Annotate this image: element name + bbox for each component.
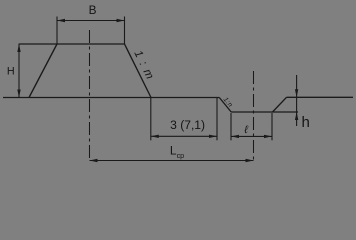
arrowhead H bottom — [17, 90, 20, 98]
ground line left (natural ground surface) — [3, 97, 219, 99]
arrowhead h down (onto upper ground level) — [295, 89, 298, 97]
svg-text:3 (7,1): 3 (7,1) — [170, 118, 205, 132]
arrowhead 3(7,1) right — [209, 135, 217, 138]
extension line l left (ditch bottom left) — [230, 113, 232, 140]
arrowhead Lcp right — [246, 159, 254, 162]
dimension line B — [57, 20, 125, 22]
dimension line l (ditch bottom width) — [231, 135, 272, 137]
extension line for 3(7,1) right at ditch edge — [216, 98, 218, 140]
embankment crest (top of subgrade) with extension to H dimension — [19, 43, 125, 45]
ditch centerline (dash-dot axis) — [253, 71, 255, 161]
ground line right of ditch — [287, 96, 354, 98]
extension line for 3(7,1) left at embankment toe — [150, 98, 152, 140]
arrowhead h up (onto ditch bottom level) — [295, 112, 298, 120]
extension line l right (ditch bottom right) — [271, 113, 273, 140]
extension line B left — [56, 17, 58, 45]
dimension line H — [18, 44, 20, 98]
svg-text:В: В — [89, 3, 97, 17]
svg-text:h: h — [302, 114, 310, 131]
svg-text:ℓ: ℓ — [243, 124, 248, 136]
ditch right slope — [273, 97, 287, 112]
arrowhead B left — [57, 19, 65, 22]
arrowhead l right — [264, 135, 272, 138]
ditch left slope — [219, 98, 231, 113]
dimension leader h (vertical through both levels) — [296, 75, 298, 126]
embankment left slope — [29, 44, 57, 98]
dimension line Lcp — [90, 160, 254, 162]
arrowhead l left — [231, 135, 239, 138]
svg-text:Н: Н — [7, 66, 15, 78]
arrowhead H top — [17, 44, 20, 52]
extension line B right — [124, 17, 126, 45]
arrowhead 3(7,1) left — [151, 135, 159, 138]
ditch bottom, extended right as extension line for h — [231, 111, 298, 113]
arrowhead B right — [117, 19, 125, 22]
embankment right slope — [125, 44, 152, 98]
arrowhead Lcp left — [90, 159, 98, 162]
road centerline (dash-dot axis) — [89, 30, 91, 161]
dimension line 3(7,1) — [151, 135, 217, 137]
